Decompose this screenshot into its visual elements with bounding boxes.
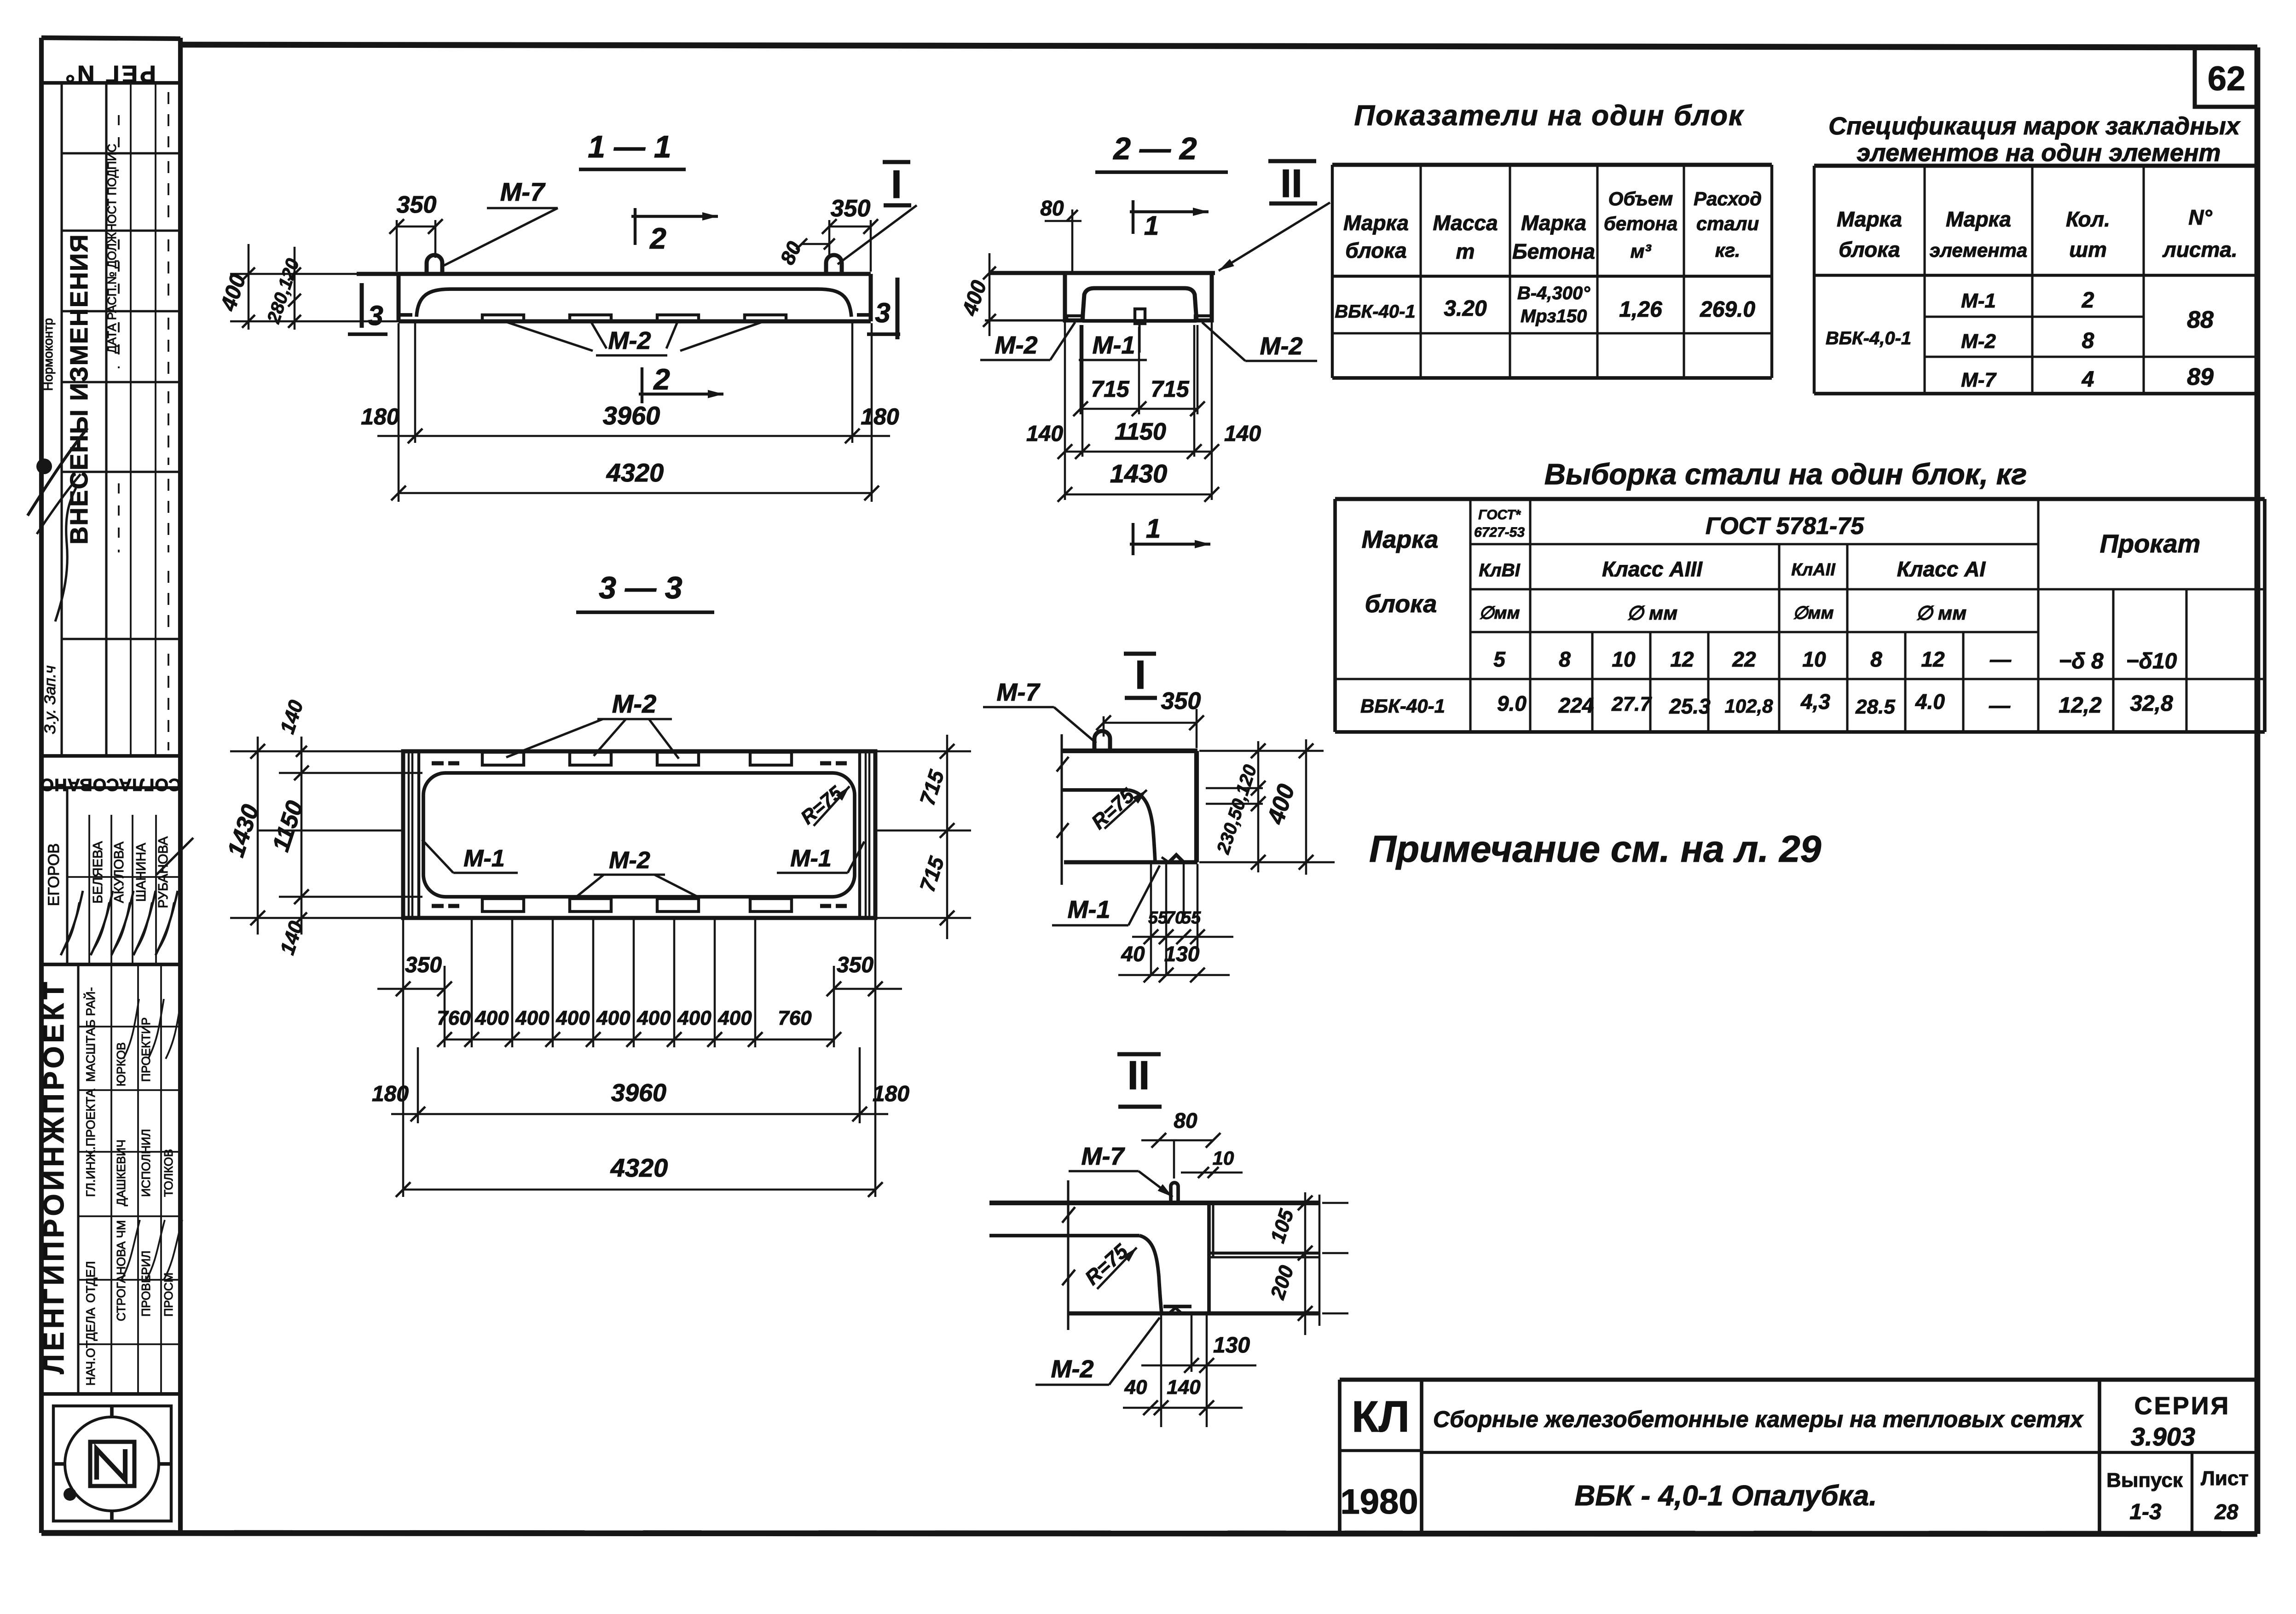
svg-text:II: II — [1128, 1052, 1150, 1098]
svg-text:блока: блока — [1365, 590, 1437, 618]
svg-text:1 — 1: 1 — 1 — [588, 129, 671, 164]
svg-text:1150: 1150 — [1115, 418, 1166, 445]
svg-text:4,3: 4,3 — [1800, 690, 1830, 714]
svg-text:2: 2 — [2082, 288, 2094, 313]
svg-text:40: 40 — [1124, 1376, 1147, 1399]
svg-text:Марка: Марка — [1362, 526, 1439, 553]
svg-text:КлВI: КлВI — [1479, 560, 1520, 581]
svg-text:1: 1 — [1144, 211, 1159, 241]
svg-text:СЕРИЯ: СЕРИЯ — [2134, 1392, 2231, 1420]
svg-text:Прокат: Прокат — [2100, 529, 2201, 558]
svg-text:Марка: Марка — [1521, 211, 1586, 235]
svg-text:2: 2 — [649, 222, 666, 255]
svg-text:400: 400 — [596, 1007, 630, 1029]
svg-text:М-1: М-1 — [463, 845, 505, 872]
svg-text:180: 180 — [861, 404, 899, 430]
svg-text:I: I — [1135, 652, 1146, 697]
svg-text:ГОСТ 5781-75: ГОСТ 5781-75 — [1706, 513, 1864, 540]
svg-text:СОГЛАСОВАНО: СОГЛАСОВАНО — [40, 775, 181, 794]
svg-text:8: 8 — [1559, 647, 1571, 671]
svg-text:130: 130 — [1164, 942, 1200, 966]
svg-text:М-1: М-1 — [790, 845, 832, 872]
svg-text:Лист: Лист — [2201, 1467, 2249, 1490]
svg-text:листа.: листа. — [2162, 238, 2238, 261]
svg-text:224: 224 — [1558, 693, 1594, 717]
svg-text:3 — 3: 3 — 3 — [599, 570, 682, 605]
svg-text:Сборные железобетонные камер: Сборные железобетонные камеры на тепловы… — [1433, 1406, 2084, 1432]
svg-text:140: 140 — [1167, 1376, 1201, 1399]
svg-text:М-1: М-1 — [1068, 896, 1110, 923]
svg-text:180: 180 — [361, 404, 399, 430]
svg-text:3: 3 — [368, 300, 383, 331]
svg-text:4.0: 4.0 — [1915, 690, 1945, 714]
svg-text:2 — 2: 2 — 2 — [1112, 131, 1197, 166]
svg-text:элемента: элемента — [1930, 239, 2028, 261]
svg-text:ВБК-40-1: ВБК-40-1 — [1360, 695, 1445, 717]
svg-text:1,26: 1,26 — [1619, 297, 1662, 322]
svg-text:ДАТА РАСП.№ ДОЛЖНОСТ ПОДПИС: ДАТА РАСП.№ ДОЛЖНОСТ ПОДПИС — [105, 144, 119, 353]
svg-text:Примечание см. на л. 29: Примечание см. на л. 29 — [1369, 828, 1822, 870]
svg-text:ВБК-40-1: ВБК-40-1 — [1335, 302, 1415, 322]
svg-text:10: 10 — [1802, 647, 1826, 671]
svg-text:180: 180 — [873, 1082, 909, 1106]
svg-text:4320: 4320 — [606, 458, 664, 487]
svg-text:М-7: М-7 — [1961, 369, 1997, 391]
svg-text:102,8: 102,8 — [1724, 695, 1773, 717]
svg-text:3: 3 — [875, 297, 890, 328]
svg-text:Марка: Марка — [1837, 207, 1902, 231]
svg-text:269.0: 269.0 — [1700, 297, 1755, 322]
svg-text:1-3: 1-3 — [2129, 1500, 2162, 1524]
svg-text:БЕЛЯЕВА: БЕЛЯЕВА — [91, 841, 105, 904]
svg-text:9.0: 9.0 — [1497, 691, 1527, 715]
svg-text:Класс АI: Класс АI — [1897, 557, 1986, 581]
svg-text:ИСПОЛНИЛ: ИСПОЛНИЛ — [139, 1129, 153, 1197]
svg-text:блока: блока — [1345, 238, 1406, 262]
svg-text:400: 400 — [555, 1007, 590, 1029]
svg-text:М-1: М-1 — [1093, 331, 1135, 359]
svg-text:1980: 1980 — [1340, 1482, 1418, 1521]
svg-text:760: 760 — [437, 1007, 471, 1029]
svg-text:Класс АIII: Класс АIII — [1602, 557, 1703, 581]
svg-text:350: 350 — [1161, 688, 1201, 714]
svg-text:Масса: Масса — [1433, 211, 1498, 235]
svg-text:АКУЛОВА: АКУЛОВА — [112, 842, 127, 903]
svg-text:2: 2 — [653, 363, 670, 396]
svg-text:М-2: М-2 — [995, 331, 1038, 359]
svg-text:28.5: 28.5 — [1855, 696, 1895, 718]
svg-text:НАЧ.ОТДЕЛА: НАЧ.ОТДЕЛА — [84, 1307, 98, 1386]
svg-text:М-2: М-2 — [608, 327, 651, 354]
svg-text:400: 400 — [717, 1007, 752, 1029]
svg-text:10: 10 — [1213, 1147, 1234, 1169]
svg-text:З.у. Зап.ч: З.у. Зап.ч — [41, 665, 59, 734]
svg-text:М-2: М-2 — [1961, 330, 1996, 353]
svg-text:Марка: Марка — [1946, 207, 2011, 231]
svg-text:89: 89 — [2187, 364, 2214, 390]
svg-text:т: т — [1456, 239, 1475, 263]
svg-text:Выборка стали на один блок: Выборка стали на один блок, кг — [1544, 458, 2027, 491]
svg-text:12: 12 — [1921, 647, 1945, 671]
svg-text:Показатели на один блок: Показатели на один блок — [1354, 100, 1745, 132]
svg-text:3960: 3960 — [603, 401, 660, 430]
svg-text:∅мм: ∅мм — [1479, 604, 1520, 623]
svg-text:ВБК-4,0-1: ВБК-4,0-1 — [1826, 328, 1911, 348]
svg-text:10: 10 — [1612, 647, 1636, 671]
svg-text:МАСШТАБ РАЙ-: МАСШТАБ РАЙ- — [83, 987, 98, 1082]
svg-text:В-4,300°: В-4,300° — [1517, 283, 1590, 303]
svg-text:1430: 1430 — [1110, 459, 1168, 488]
svg-text:32,8: 32,8 — [2130, 691, 2173, 716]
svg-text:элементов на один элемент: элементов на один элемент — [1856, 139, 2221, 167]
svg-text:715: 715 — [1091, 376, 1130, 402]
svg-text:М-1: М-1 — [1961, 290, 1996, 312]
svg-text:4: 4 — [2082, 367, 2094, 392]
svg-text:1: 1 — [1146, 514, 1161, 544]
svg-text:55: 55 — [1181, 908, 1201, 928]
svg-text:∅ мм: ∅ мм — [1627, 602, 1677, 624]
svg-text:М-2: М-2 — [1260, 332, 1303, 360]
svg-text:−δ10: −δ10 — [2126, 649, 2177, 673]
svg-text:8: 8 — [1870, 647, 1882, 671]
svg-text:шт: шт — [2069, 238, 2107, 261]
svg-text:Расход: Расход — [1694, 188, 1762, 209]
svg-text:—: — — [1989, 693, 2011, 717]
svg-text:ГОСТ*: ГОСТ* — [1478, 507, 1521, 523]
svg-text:400: 400 — [677, 1007, 711, 1029]
svg-text:350: 350 — [405, 953, 442, 977]
svg-text:блока: блока — [1839, 238, 1900, 261]
svg-text:Бетона: Бетона — [1512, 239, 1595, 263]
svg-text:400: 400 — [515, 1007, 549, 1029]
svg-text:3.20: 3.20 — [1444, 296, 1487, 321]
svg-text:М-7: М-7 — [1081, 1143, 1126, 1170]
svg-text:Нормоконтр: Нормоконтр — [41, 318, 55, 391]
svg-text:ДАШКЕВИЧ: ДАШКЕВИЧ — [114, 1139, 128, 1206]
svg-text:∅ мм: ∅ мм — [1916, 602, 1966, 624]
svg-text:бетона: бетона — [1604, 213, 1678, 234]
svg-text:РЕГ N°: РЕГ N° — [63, 60, 156, 87]
svg-text:140: 140 — [1026, 422, 1063, 446]
svg-text:28: 28 — [2214, 1500, 2238, 1524]
svg-text:Кол.: Кол. — [2066, 207, 2110, 231]
svg-text:350: 350 — [837, 953, 873, 977]
svg-text:ОТДЕЛ: ОТДЕЛ — [84, 1261, 98, 1303]
svg-text:27.7: 27.7 — [1611, 693, 1652, 715]
svg-text:кг.: кг. — [1715, 239, 1741, 261]
svg-text:350: 350 — [831, 195, 871, 222]
svg-text:8: 8 — [2082, 329, 2094, 353]
svg-text:Мрз150: Мрз150 — [1521, 306, 1587, 326]
svg-text:ГЛ.ИНЖ.ПРОЕКТА: ГЛ.ИНЖ.ПРОЕКТА — [84, 1089, 98, 1197]
svg-text:КЛ: КЛ — [1352, 1392, 1410, 1441]
svg-text:ТОЛКОВ: ТОЛКОВ — [162, 1149, 175, 1197]
svg-text:М-2: М-2 — [612, 689, 656, 718]
svg-text:22: 22 — [1732, 647, 1756, 671]
svg-text:80: 80 — [1040, 196, 1064, 220]
svg-text:12: 12 — [1670, 647, 1694, 671]
svg-text:80: 80 — [1174, 1109, 1197, 1132]
svg-text:−δ 8: −δ 8 — [2059, 649, 2104, 673]
svg-text:Объем: Объем — [1608, 188, 1673, 209]
svg-text:5: 5 — [1493, 647, 1506, 671]
svg-text:ШАНИНА: ШАНИНА — [134, 842, 149, 902]
svg-text:∅мм: ∅мм — [1793, 604, 1833, 623]
svg-text:ПРОВЕРИЛ: ПРОВЕРИЛ — [139, 1251, 153, 1317]
svg-text:400: 400 — [474, 1007, 509, 1029]
svg-text:Спецификация марок закладных: Спецификация марок закладных — [1828, 112, 2241, 140]
svg-text:ВНЕСЕНЫ ИЗМЕНЕНИЯ: ВНЕСЕНЫ ИЗМЕНЕНИЯ — [65, 233, 93, 544]
svg-text:М-2: М-2 — [1051, 1355, 1094, 1383]
svg-text:62: 62 — [2208, 59, 2245, 98]
svg-text:КлАII: КлАII — [1791, 560, 1836, 580]
svg-text:350: 350 — [397, 192, 437, 218]
svg-text:25.3: 25.3 — [1669, 694, 1711, 718]
svg-text:стали: стали — [1696, 213, 1759, 234]
svg-text:130: 130 — [1213, 1333, 1250, 1358]
svg-text:ЕГОРОВ: ЕГОРОВ — [45, 843, 63, 906]
svg-text:180: 180 — [372, 1082, 409, 1106]
svg-text:I: I — [891, 163, 902, 207]
svg-text:м³: м³ — [1630, 240, 1651, 262]
svg-text:—: — — [1989, 647, 2012, 671]
svg-text:М-2: М-2 — [609, 847, 650, 874]
svg-text:М-7: М-7 — [500, 177, 546, 206]
svg-text:ВБК - 4,0-1 Опалубка.: ВБК - 4,0-1 Опалубка. — [1574, 1480, 1877, 1512]
svg-text:ПРОЕКТИР: ПРОЕКТИР — [139, 1017, 153, 1082]
svg-text:140: 140 — [1224, 422, 1261, 446]
svg-text:II: II — [1280, 162, 1302, 206]
svg-text:ЮРКОВ: ЮРКОВ — [114, 1042, 128, 1086]
svg-text:6727-53: 6727-53 — [1474, 525, 1525, 540]
svg-text:4320: 4320 — [610, 1153, 668, 1182]
svg-text:715: 715 — [1151, 376, 1190, 402]
svg-text:М-7: М-7 — [997, 679, 1041, 706]
svg-text:40: 40 — [1121, 942, 1145, 966]
svg-text:88: 88 — [2187, 307, 2214, 333]
svg-text:Выпуск: Выпуск — [2106, 1469, 2183, 1492]
svg-text:ЛЕНГИПРОИНЖПРОЕКТ: ЛЕНГИПРОИНЖПРОЕКТ — [38, 979, 70, 1374]
svg-text:400: 400 — [636, 1007, 671, 1029]
svg-text:N°: N° — [2188, 205, 2212, 229]
svg-text:3960: 3960 — [611, 1079, 666, 1107]
svg-text:12,2: 12,2 — [2059, 693, 2102, 718]
svg-text:Марка: Марка — [1343, 211, 1409, 235]
svg-text:3.903: 3.903 — [2131, 1422, 2195, 1451]
svg-text:760: 760 — [778, 1007, 812, 1029]
